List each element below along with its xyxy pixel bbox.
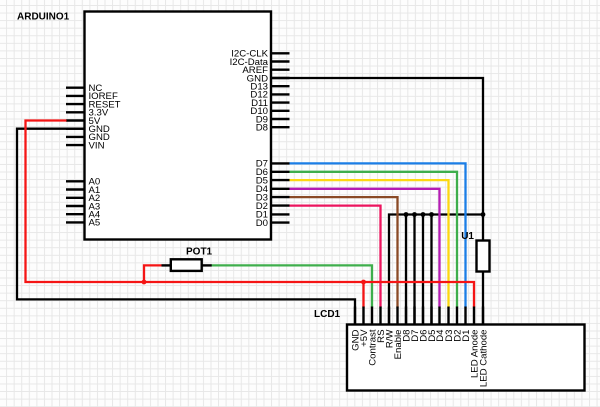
ARDUINO1 pin D6 <box>256 167 290 178</box>
ARDUINO1 pin D1 <box>256 210 290 221</box>
ARDUINO1 pin A0 <box>66 177 100 188</box>
junction red rail / LCD +5V <box>361 280 366 285</box>
LCD1 pin D5 <box>427 307 438 342</box>
LCD1 pin RS <box>376 307 387 343</box>
wire 5V red: ARDUINO1 5V to rail <box>26 121 475 308</box>
ARDUINO1 pin AREF <box>242 65 289 76</box>
wire red branch to POT1 left <box>144 265 162 282</box>
LCD1 pin D2 <box>452 307 463 342</box>
wire GND black: ARDUINO1 right GND down to bus <box>271 78 483 215</box>
wire magenta D4 to LCD D4 <box>290 189 440 308</box>
svg-text:ARDUINO1: ARDUINO1 <box>17 12 70 23</box>
ARDUINO1 pin D8 <box>256 123 290 134</box>
LCD1 pin LED Anode <box>469 307 480 379</box>
ARDUINO1 pin A2 <box>66 193 100 204</box>
ARDUINO1 pin NC <box>66 83 102 94</box>
ARDUINO1 pin RESET <box>66 99 121 110</box>
wire black bus drop LCD D5 <box>430 215 432 326</box>
wire GND black: ARDUINO1 GND to LCD GND <box>17 129 355 326</box>
LCD1 pin Enable <box>393 307 404 360</box>
ARDUINO1 pin A4 <box>66 210 101 221</box>
ARDUINO1 pin GND <box>66 132 110 143</box>
ARDUINO1 pin D10 <box>250 106 289 117</box>
ARDUINO1 pin D11 <box>251 98 289 109</box>
ARDUINO1 pin D9 <box>256 114 290 125</box>
wire red branch to LCD +5V <box>362 282 364 308</box>
svg-text:U1: U1 <box>461 231 474 242</box>
LCD1 pin Contrast <box>367 307 378 366</box>
wire pink D2 to LCD RS <box>290 206 381 308</box>
junction bus/D6 <box>421 212 426 217</box>
wire blue D7 to LCD D1 <box>290 163 466 307</box>
potentiometer POT1 body <box>171 259 202 271</box>
ARDUINO1 pin VIN <box>66 140 105 151</box>
LCD1 pin LED Cathode <box>478 307 489 388</box>
junction bus/U1 <box>481 212 486 217</box>
svg-text:POT1: POT1 <box>186 247 213 258</box>
svg-text:LCD1: LCD1 <box>314 309 341 320</box>
junction bus/D7 <box>412 212 417 217</box>
LCD1 pin D1 <box>461 307 472 342</box>
ARDUINO1 pin 5V <box>66 116 101 127</box>
LCD1 pin D8 <box>401 307 412 342</box>
ARDUINO1 pin D7 <box>256 159 290 170</box>
LCD1 pin D6 <box>418 307 429 342</box>
svg-text:VIN: VIN <box>89 140 105 151</box>
svg-text:D8: D8 <box>256 123 268 134</box>
wire green D6 to LCD D2 <box>290 172 458 308</box>
svg-text:A5: A5 <box>89 218 101 229</box>
ARDUINO1 pin D3 <box>256 192 290 203</box>
ARDUINO1 pin D13 <box>250 82 289 93</box>
wire black bus to LCD R/W <box>389 215 483 326</box>
resistor U1 body <box>477 241 490 272</box>
ARDUINO1 pin GND <box>66 124 110 135</box>
LCD display LCD1 <box>347 325 585 391</box>
ARDUINO1 pin D4 <box>256 184 290 195</box>
wire green POT1 to LCD Contrast <box>212 265 373 307</box>
wire brown D3 to LCD Enable <box>290 197 398 307</box>
potentiometer POT1 lead left <box>162 264 171 266</box>
ARDUINO1 pin 3.3V <box>66 108 109 119</box>
ARDUINO1 pin D5 <box>256 175 290 186</box>
wire black bus drop LCD D7 <box>413 215 415 326</box>
wire black bus drop LCD D8 <box>405 215 407 326</box>
svg-text:LED Cathode: LED Cathode <box>478 330 489 388</box>
ARDUINO1 pin A1 <box>66 185 100 196</box>
junction bus/D8 <box>404 212 409 217</box>
svg-text:D0: D0 <box>256 218 268 229</box>
ARDUINO1 pin D0 <box>256 218 290 229</box>
ARDUINO1 pin D2 <box>256 201 290 212</box>
ARDUINO1 pin A5 <box>66 218 100 229</box>
Arduino board ARDUINO1 <box>85 12 272 240</box>
LCD1 pin R/W <box>384 307 395 349</box>
LCD1 pin GND <box>350 307 361 351</box>
LCD1 pin +5V <box>359 307 370 347</box>
resistor U1 lead top <box>482 215 484 242</box>
resistor U1 lead bottom <box>482 271 484 326</box>
ARDUINO1 pin D12 <box>250 90 289 101</box>
junction bus/D5 <box>429 212 434 217</box>
LCD1 pin D7 <box>410 307 421 342</box>
ARDUINO1 pin GND <box>247 73 290 84</box>
wire black bus drop LCD D6 <box>422 215 424 326</box>
LCD1 pin D4 <box>435 307 446 342</box>
ARDUINO1 pin A3 <box>66 201 100 212</box>
ARDUINO1 pin I2C-CLK <box>231 49 289 60</box>
junction red rail / POT1 <box>142 280 147 285</box>
LCD1 pin D3 <box>444 307 455 342</box>
potentiometer POT1 lead right <box>202 264 212 266</box>
ARDUINO1 pin IOREF <box>66 91 118 102</box>
wire yellow D5 to LCD D3 <box>290 180 449 307</box>
ARDUINO1 pin I2C-Data <box>230 57 290 68</box>
